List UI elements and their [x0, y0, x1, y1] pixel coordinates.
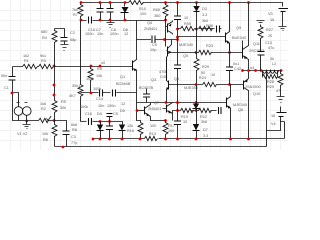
svg-text:R27: R27 [266, 28, 273, 32]
capacitor C3 [55, 121, 67, 147]
svg-text:R23: R23 [206, 44, 213, 48]
svg-text:47u: 47u [268, 46, 274, 50]
voltage sources V1 V2 [14, 107, 23, 116]
wire Q7 base [137, 110, 145, 112]
svg-text:R19: R19 [181, 115, 188, 119]
svg-text:R10: R10 [139, 7, 146, 11]
svg-text:Q11: Q11 [253, 42, 260, 46]
transistor Q3 [168, 81, 170, 90]
svg-text:100n: 100n [85, 32, 93, 36]
diode D6 [122, 125, 124, 139]
resistor R10 [129, 1, 144, 5]
svg-text:2N5401: 2N5401 [144, 27, 157, 31]
transistor Q11 [242, 47, 244, 59]
resistor R65 [163, 3, 168, 21]
resistor R6 [52, 121, 57, 147]
svg-text:V1 V2: V1 V2 [17, 132, 27, 136]
svg-text:30k: 30k [60, 106, 66, 110]
svg-text:o4: o4 [250, 66, 254, 70]
svg-text:R59: R59 [184, 22, 191, 26]
svg-text:C40: C40 [160, 75, 167, 79]
wire column x177 with capacitors [177, 3, 179, 103]
wire column x177 lower with capacitor [177, 103, 179, 139]
svg-text:D4: D4 [97, 112, 102, 116]
transistor Q4 [167, 24, 169, 33]
battery V4 [267, 107, 281, 131]
wire source feed [13, 93, 55, 121]
svg-text:3.3: 3.3 [203, 134, 208, 138]
resistor R19 and resistor R22 row [178, 110, 217, 112]
svg-text:o0: o0 [101, 61, 105, 65]
svg-text:47: 47 [276, 89, 280, 93]
svg-text:12k: 12k [127, 124, 133, 128]
transistor Q10 [243, 81, 245, 90]
resistor R1 and resistor R3 on input wire [13, 64, 133, 68]
wire column x242 [242, 41, 244, 47]
svg-text:C9: C9 [152, 43, 157, 47]
svg-text:C13: C13 [265, 41, 272, 45]
capacitor C1 [12, 67, 14, 93]
svg-text:Q1: Q1 [120, 75, 125, 79]
resistor R2 [39, 116, 52, 123]
svg-text:100k: 100k [86, 77, 94, 81]
svg-text:50: 50 [201, 71, 205, 75]
capacitor C14 pair on wire [81, 92, 137, 94]
resistor R28 [263, 71, 278, 79]
svg-text:C14: C14 [96, 97, 103, 101]
svg-text:C3: C3 [71, 135, 76, 139]
capacitor C5 plates [107, 114, 113, 117]
node junction dots top rails [80, 1, 250, 21]
resistor 4K7 on long column wire [80, 21, 82, 122]
svg-text:3.3: 3.3 [202, 13, 207, 17]
svg-text:R4: R4 [42, 36, 47, 40]
capacitor C16 inline on wire [81, 122, 123, 125]
svg-text:C16: C16 [85, 112, 92, 116]
svg-text:Q8: Q8 [238, 108, 243, 112]
svg-text:R2: R2 [41, 107, 46, 111]
wire column x137 [136, 21, 138, 41]
svg-text:10: 10 [184, 16, 188, 20]
svg-text:68p: 68p [70, 38, 76, 42]
svg-text:77p: 77p [71, 141, 77, 145]
zener D7 [196, 111, 198, 139]
svg-text:BUE340: BUE340 [232, 36, 246, 40]
svg-text:R22: R22 [200, 115, 207, 119]
svg-text:100: 100 [150, 124, 156, 128]
wire [164, 19, 167, 22]
svg-text:10: 10 [211, 73, 215, 77]
wire [137, 102, 225, 104]
svg-text:16: 16 [270, 18, 274, 22]
capacitor C42 [229, 44, 231, 85]
diode D4 [100, 122, 102, 139]
ground [23, 121, 31, 129]
svg-text:0u1: 0u1 [233, 62, 239, 66]
resistor R7 [78, 3, 83, 21]
svg-text:9k1: 9k1 [40, 54, 46, 58]
resistor R29 [194, 53, 199, 85]
svg-text:10k: 10k [42, 132, 48, 136]
resistor R27 and capacitor C13 with ground [257, 21, 265, 71]
resistor R59 and resistor R38 row [178, 28, 222, 30]
svg-text:Q7: Q7 [154, 101, 159, 105]
svg-text:10n: 10n [98, 104, 104, 108]
svg-text:100: 100 [140, 12, 146, 16]
svg-text:360: 360 [154, 14, 160, 18]
svg-text:12: 12 [121, 102, 125, 106]
svg-text:3k: 3k [270, 57, 274, 61]
inductor L2 [263, 71, 279, 74]
svg-text:D3: D3 [202, 7, 207, 11]
transistor Q7 [144, 107, 146, 115]
svg-text:Q4: Q4 [147, 21, 152, 25]
capacitor C7 [100, 3, 102, 21]
svg-text:R24: R24 [199, 76, 206, 80]
transistor Q5 [167, 47, 169, 57]
resistor R9 [88, 67, 93, 93]
svg-text:L2: L2 [272, 62, 276, 66]
svg-text:R3: R3 [41, 59, 46, 63]
svg-text:R7: R7 [73, 13, 78, 17]
svg-text:680: 680 [41, 30, 47, 34]
svg-text:100n: 100n [107, 104, 115, 108]
svg-text:BC546B: BC546B [116, 82, 131, 86]
svg-text:10k: 10k [96, 74, 102, 78]
svg-text:R9: R9 [97, 67, 102, 71]
svg-text:C5: C5 [113, 112, 118, 116]
wire bias bus [81, 20, 166, 22]
svg-text:20: 20 [268, 34, 272, 38]
transistor Q1 [132, 61, 134, 71]
svg-text:100k: 100k [93, 87, 101, 91]
svg-text:100n: 100n [110, 32, 118, 36]
svg-text:10p: 10p [150, 48, 156, 52]
svg-text:C42: C42 [234, 67, 241, 71]
resistor R4 and capacitor C2 [52, 29, 65, 67]
svg-text:3k0: 3k0 [202, 19, 208, 23]
wire feedback column [54, 67, 56, 101]
svg-text:MJE340: MJE340 [233, 103, 247, 107]
svg-text:7k0: 7k0 [72, 8, 78, 12]
wire bottom rail [55, 146, 267, 148]
svg-text:Q5: Q5 [183, 54, 188, 58]
svg-text:D5: D5 [120, 109, 125, 113]
svg-text:R5: R5 [61, 100, 66, 104]
transistor Q9 [225, 33, 227, 43]
wire column x166 [166, 21, 167, 103]
svg-text:3k6: 3k6 [201, 120, 207, 124]
svg-text:R17: R17 [168, 124, 175, 128]
svg-text:R29: R29 [267, 85, 274, 89]
wire positive rail [81, 3, 283, 7]
svg-text:30k1: 30k1 [72, 84, 80, 88]
battery V3 with ground [279, 9, 289, 12]
svg-text:2N5401: 2N5401 [148, 107, 161, 111]
svg-text:C1: C1 [4, 86, 9, 90]
svg-text:10n: 10n [97, 32, 103, 36]
svg-text:Q9: Q9 [236, 26, 241, 30]
capacitor C8 [110, 3, 112, 21]
svg-text:Q3: Q3 [151, 78, 156, 82]
transistor Q6 [226, 98, 228, 108]
svg-text:6k8: 6k8 [71, 123, 77, 127]
svg-text:R13: R13 [149, 132, 156, 136]
ground [107, 21, 115, 28]
capacitor C9 on mirror wire [137, 39, 178, 41]
resistor R13 on bottom bus wire [93, 138, 285, 140]
resistor R17 [163, 121, 168, 139]
svg-text:100: 100 [168, 129, 174, 133]
svg-text:R38: R38 [206, 24, 213, 28]
svg-text:4K7: 4K7 [69, 94, 76, 98]
svg-text:R29: R29 [202, 65, 209, 69]
svg-text:100k: 100k [80, 105, 88, 109]
svg-text:V3: V3 [268, 12, 273, 16]
svg-text:1k2: 1k2 [23, 54, 29, 58]
resistor R16 [138, 123, 143, 139]
svg-text:C2: C2 [70, 31, 75, 35]
resistor R5 [52, 101, 57, 121]
capacitor C5 column [109, 122, 111, 139]
zener D5 [196, 85, 198, 111]
wire output node o4 [243, 70, 283, 72]
svg-text:Q10: Q10 [253, 92, 260, 96]
svg-text:50e: 50e [1, 74, 7, 78]
svg-text:1k6: 1k6 [40, 102, 46, 106]
svg-text:R16: R16 [127, 129, 134, 133]
capacitor C40 [146, 89, 148, 103]
resistor R30 with ground [278, 71, 283, 97]
svg-text:R1: R1 [24, 59, 29, 63]
svg-text:Q6: Q6 [174, 77, 179, 81]
svg-text:R65: R65 [153, 8, 160, 12]
svg-text:MJE350: MJE350 [184, 86, 198, 90]
transistor Q7b [166, 105, 168, 113]
svg-text:2SA1900: 2SA1900 [245, 85, 261, 89]
svg-text:12: 12 [124, 32, 128, 36]
svg-text:10: 10 [183, 120, 187, 124]
wire to Q9 base [178, 36, 225, 38]
svg-text:R28: R28 [267, 80, 274, 84]
svg-text:D7: D7 [203, 128, 208, 132]
capacitor C15 [89, 17, 92, 24]
svg-text:16: 16 [271, 114, 275, 118]
svg-text:R8: R8 [72, 128, 77, 132]
wire column x267 [266, 71, 268, 147]
wire column x196 [196, 29, 198, 53]
resistor R23 row [197, 52, 243, 54]
svg-text:V4: V4 [271, 122, 276, 126]
zener D8 [124, 3, 126, 21]
svg-text:MJE340: MJE340 [179, 43, 193, 47]
svg-text:R6: R6 [43, 138, 48, 142]
